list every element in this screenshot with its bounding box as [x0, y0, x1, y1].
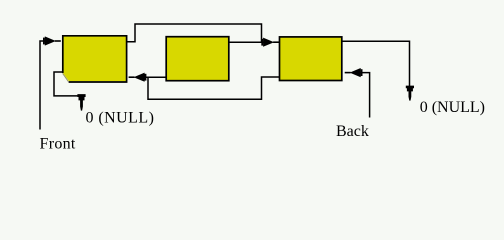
arrowhead down to right NULL — [406, 86, 414, 101]
svg-text:Front: Front — [40, 136, 76, 153]
arrowhead left into box3 — [350, 68, 361, 77]
wire: Front pointer up and into box1 — [40, 41, 46, 130]
wire: box1 next, up over box2 — [126, 24, 262, 42]
arrowhead right into box1 (Front) — [45, 36, 56, 45]
wire: box3 prev, down under box2 joining junction — [148, 77, 280, 99]
svg-text:0 (NULL): 0 (NULL) — [86, 110, 155, 127]
svg-text:Back: Back — [336, 123, 369, 140]
wire: box3 next to right NULL — [342, 41, 410, 86]
node box 1 — [63, 37, 126, 82]
node box 2 — [166, 37, 229, 81]
arrowhead down to left NULL — [77, 94, 85, 111]
wire: Back pointer up and into box3 — [360, 73, 370, 118]
arrowhead right into box3 — [263, 38, 274, 47]
svg-text:0 (NULL): 0 (NULL) — [420, 99, 485, 116]
wire: box2 prev toward box1 — [144, 76, 166, 78]
wire: box2 next into box3 — [229, 41, 264, 43]
node box 3 — [280, 37, 342, 81]
arrowhead left into box1 — [134, 73, 145, 82]
wire: box1 prev to NULL — [54, 72, 78, 96]
